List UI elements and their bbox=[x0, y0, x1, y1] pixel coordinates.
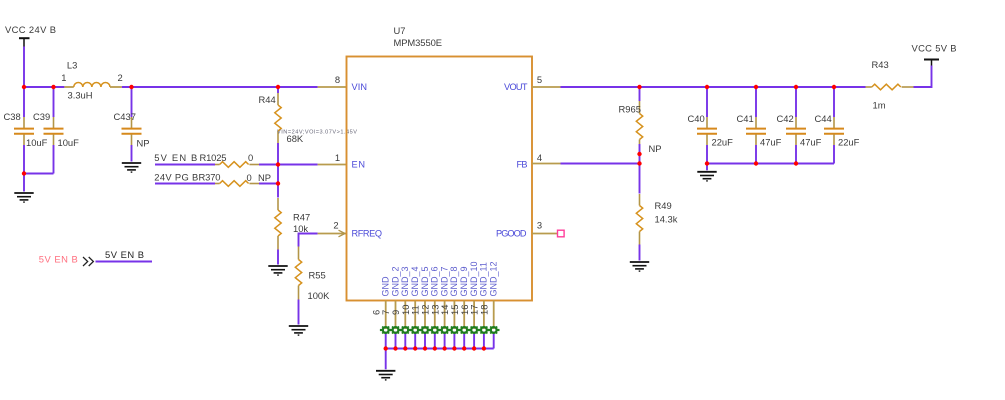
net-tie marker pin 16 bbox=[468, 327, 480, 334]
node rail at C437 bbox=[129, 85, 133, 89]
off-page connector 5V_EN_B bbox=[39, 249, 152, 266]
svg-text:3.3uH: 3.3uH bbox=[68, 90, 93, 101]
svg-text:100K: 100K bbox=[308, 290, 331, 301]
net-tie marker pin 10 bbox=[409, 327, 421, 334]
svg-text:R47: R47 bbox=[293, 212, 310, 223]
svg-text:5V EN B: 5V EN B bbox=[154, 152, 197, 163]
wire to ground bbox=[23, 174, 25, 192]
pin 6 GND stub bbox=[385, 301, 387, 330]
node caprail C42 bbox=[794, 161, 798, 165]
svg-text:MPM3550E: MPM3550E bbox=[394, 37, 443, 48]
pin 15 GND_9 stub bbox=[463, 301, 465, 330]
wire pin 13 to bus bbox=[444, 332, 446, 349]
pin 9 GND_3 stub bbox=[404, 301, 406, 330]
svg-text:R965: R965 bbox=[619, 104, 641, 115]
net-tie marker pin 17 bbox=[478, 327, 490, 334]
svg-text:5V EN B: 5V EN B bbox=[39, 254, 78, 265]
svg-text:10k: 10k bbox=[293, 223, 308, 234]
ground under R47 bbox=[268, 266, 287, 275]
net-tie marker pin 12 bbox=[429, 327, 441, 334]
svg-text:VCC 5V B: VCC 5V B bbox=[912, 43, 957, 54]
GND pins of U7 bbox=[370, 261, 499, 379]
power VCC_24V_B bbox=[5, 24, 56, 47]
node VOUT at C41 bbox=[754, 85, 758, 89]
pin 10 GND_4 stub bbox=[414, 301, 416, 330]
svg-text:GND_10: GND_10 bbox=[469, 261, 479, 296]
wire GND bus bbox=[386, 348, 494, 350]
node rail at R44 bbox=[276, 85, 280, 89]
svg-text:1m: 1m bbox=[873, 100, 886, 111]
net-tie marker pin 7 bbox=[390, 327, 402, 334]
ground under C40 bbox=[697, 172, 716, 181]
pin 13 GND_7 stub bbox=[444, 301, 446, 330]
svg-text:VIN=24V;VOl=3.07V>1.45V: VIN=24V;VOl=3.07V>1.45V bbox=[277, 130, 357, 136]
wire pin 12 to bus bbox=[434, 332, 436, 349]
pin 2 RFREQ stub bbox=[318, 230, 347, 237]
svg-text:GND_5: GND_5 bbox=[420, 266, 430, 296]
svg-text:47uF: 47uF bbox=[760, 137, 782, 148]
resistor R1025 bbox=[155, 152, 259, 167]
svg-text:14.3k: 14.3k bbox=[655, 214, 678, 225]
node caprail C40 bbox=[705, 161, 709, 165]
svg-text:C437: C437 bbox=[114, 111, 136, 122]
resistor R47 bbox=[275, 198, 310, 265]
svg-text:1: 1 bbox=[335, 152, 340, 163]
svg-text:C44: C44 bbox=[815, 113, 832, 124]
node R965 bottom bbox=[637, 152, 641, 156]
capacitor C44 bbox=[815, 87, 860, 164]
node VOUT at C44 bbox=[832, 85, 836, 89]
svg-text:NP: NP bbox=[649, 143, 662, 154]
resistor R44 bbox=[259, 87, 304, 165]
resistor R965 bbox=[619, 87, 662, 164]
svg-text:GND_9: GND_9 bbox=[459, 266, 469, 296]
svg-text:4: 4 bbox=[537, 152, 542, 163]
node C38 bottom bbox=[22, 171, 26, 175]
wire pin 16 to bus bbox=[473, 332, 475, 349]
net-tie marker pin 13 bbox=[439, 327, 451, 334]
svg-text:22uF: 22uF bbox=[838, 137, 860, 148]
svg-text:C42: C42 bbox=[777, 113, 794, 124]
svg-text:5V EN B: 5V EN B bbox=[105, 249, 144, 260]
wire RFREQ vertical bbox=[298, 233, 300, 247]
node bus pin 17 bbox=[482, 346, 486, 350]
wire pin 18 to bus bbox=[493, 332, 495, 349]
net-tie marker pin 15 bbox=[458, 327, 470, 334]
wire C39 bottom to C38 bottom bbox=[24, 173, 54, 175]
ground under R55 bbox=[289, 326, 308, 335]
wire VOUT rail bbox=[561, 86, 866, 88]
svg-text:GND: GND bbox=[381, 276, 391, 297]
capacitor C437 bbox=[114, 87, 150, 162]
wire pin 7 to bus bbox=[395, 332, 397, 349]
ground under GND bus bbox=[376, 371, 395, 380]
node bus pin 15 bbox=[462, 346, 466, 350]
svg-text:C39: C39 bbox=[33, 111, 50, 122]
power VCC_5V_B bbox=[912, 43, 957, 66]
node EN junction bbox=[276, 162, 280, 166]
node bus pin 6 bbox=[384, 346, 388, 350]
svg-text:R44: R44 bbox=[259, 94, 276, 105]
node bus pin 9 bbox=[403, 346, 407, 350]
ground under C38 bbox=[14, 193, 33, 202]
pin 14 GND_8 stub bbox=[453, 301, 455, 330]
svg-text:R55: R55 bbox=[309, 270, 326, 281]
node bus pin 10 bbox=[413, 346, 417, 350]
svg-text:EN: EN bbox=[352, 160, 366, 170]
svg-text:18: 18 bbox=[478, 305, 489, 315]
svg-text:R49: R49 bbox=[655, 200, 672, 211]
wire FB junction down bbox=[639, 164, 641, 194]
wire RFREQ horizontal bbox=[299, 233, 318, 235]
pin 18 GND_12 stub bbox=[493, 301, 495, 330]
ground under R49 bbox=[630, 262, 649, 271]
svg-text:C41: C41 bbox=[737, 113, 754, 124]
capacitor C40 bbox=[688, 87, 734, 164]
svg-text:C40: C40 bbox=[688, 113, 705, 124]
svg-text:24V PG B: 24V PG B bbox=[154, 172, 198, 183]
svg-text:3: 3 bbox=[537, 220, 542, 231]
svg-text:L3: L3 bbox=[67, 60, 77, 71]
resistor R55 bbox=[295, 247, 330, 325]
svg-text:FB: FB bbox=[517, 160, 528, 170]
node FB junction bbox=[637, 161, 641, 165]
svg-text:8: 8 bbox=[335, 74, 340, 85]
node rail at C38 bbox=[22, 85, 26, 89]
pin 8 VIN stub bbox=[318, 86, 347, 88]
wire pin 10 to bus bbox=[414, 332, 416, 349]
svg-text:U7: U7 bbox=[394, 25, 406, 36]
pin 3 PGOOD stub bbox=[532, 233, 558, 235]
wire 24V rail to VIN bbox=[122, 86, 318, 88]
wire R43 to VCC_5V_B bbox=[914, 66, 932, 88]
svg-text:GND_8: GND_8 bbox=[449, 266, 459, 296]
wire 24V rail left bbox=[24, 86, 64, 88]
svg-text:VCC 24V B: VCC 24V B bbox=[5, 24, 56, 35]
svg-text:R370: R370 bbox=[199, 172, 221, 183]
net-tie marker pin 9 bbox=[400, 327, 412, 334]
junction dots bbox=[22, 85, 836, 186]
svg-text:0: 0 bbox=[248, 152, 253, 163]
capacitor C39 bbox=[33, 87, 79, 174]
resistor R43 bbox=[866, 59, 914, 111]
svg-text:2: 2 bbox=[333, 220, 338, 231]
pin 5 VOUT stub bbox=[532, 86, 561, 88]
node bus pin 14 bbox=[452, 346, 456, 350]
pin 17 GND_11 stub bbox=[483, 301, 485, 330]
capacitor C41 bbox=[737, 87, 782, 164]
wire R370 to junction bbox=[259, 183, 278, 185]
svg-text:GND_12: GND_12 bbox=[489, 261, 499, 296]
node bus pin 7 bbox=[393, 346, 397, 350]
no-connect square PGOOD bbox=[558, 230, 565, 237]
wire EN junction down bbox=[277, 165, 279, 198]
node VOUT at R965 bbox=[637, 85, 641, 89]
svg-text:47uF: 47uF bbox=[800, 137, 822, 148]
inductor L3 bbox=[61, 60, 123, 101]
pin 7 GND_2 stub bbox=[395, 301, 397, 330]
svg-text:10uF: 10uF bbox=[58, 137, 80, 148]
svg-text:VIN: VIN bbox=[352, 82, 368, 92]
svg-text:PGOOD: PGOOD bbox=[496, 229, 527, 239]
net-tie marker pin 11 bbox=[419, 327, 431, 334]
svg-text:C38: C38 bbox=[4, 111, 21, 122]
pin 12 GND_6 stub bbox=[434, 301, 436, 330]
node R370 junction bbox=[276, 181, 280, 185]
node VOUT at C42 bbox=[794, 85, 798, 89]
svg-text:GND_6: GND_6 bbox=[430, 266, 440, 296]
ground under C437 bbox=[122, 163, 141, 172]
net-tie marker pin 18 bbox=[488, 327, 500, 334]
svg-text:GND_3: GND_3 bbox=[400, 266, 410, 296]
net-tie marker pin 6 bbox=[380, 327, 392, 334]
svg-text:GND_11: GND_11 bbox=[479, 262, 489, 296]
pin 1 EN stub bbox=[318, 164, 347, 166]
resistor R370 bbox=[155, 172, 271, 187]
pin 4 FB stub bbox=[532, 163, 561, 165]
svg-text:GND_7: GND_7 bbox=[439, 266, 449, 296]
svg-text:10uF: 10uF bbox=[26, 137, 48, 148]
node rail at C39 bbox=[51, 85, 55, 89]
svg-text:RFREQ: RFREQ bbox=[352, 229, 383, 239]
svg-text:NP: NP bbox=[137, 138, 150, 149]
wire R1025 to EN pin bbox=[259, 164, 318, 166]
svg-text:22uF: 22uF bbox=[712, 137, 734, 148]
wire pin 11 to bus bbox=[424, 332, 426, 349]
wire FB bbox=[561, 163, 640, 165]
wire cap bottom rail bbox=[707, 163, 834, 165]
wire pin 9 to bus bbox=[404, 332, 406, 349]
net-tie marker pin 14 bbox=[449, 327, 461, 334]
node bus pin 16 bbox=[472, 346, 476, 350]
node VOUT at C40 bbox=[705, 85, 709, 89]
wire pin 14 to bus bbox=[453, 332, 455, 349]
svg-text:NP: NP bbox=[258, 172, 271, 183]
svg-text:5: 5 bbox=[537, 74, 542, 85]
svg-text:VOUT: VOUT bbox=[504, 82, 528, 92]
resistor R49 bbox=[636, 194, 677, 261]
wire VCC to rail bbox=[23, 47, 25, 88]
capacitor C42 bbox=[777, 87, 822, 164]
node bus pin 11 bbox=[423, 346, 427, 350]
capacitor C38 bbox=[4, 87, 48, 174]
svg-text:R43: R43 bbox=[872, 59, 889, 70]
wire pin 17 to bus bbox=[483, 332, 485, 349]
wire pin 15 to bus bbox=[463, 332, 465, 349]
node bus pin 12 bbox=[433, 346, 437, 350]
node bus pin 13 bbox=[442, 346, 446, 350]
wire bus to ground bbox=[385, 349, 387, 370]
svg-text:GND_4: GND_4 bbox=[410, 266, 420, 296]
svg-text:GND_2: GND_2 bbox=[390, 266, 400, 296]
svg-text:1: 1 bbox=[61, 72, 66, 83]
U7 body bbox=[347, 57, 533, 301]
wire C40 to ground bbox=[706, 164, 708, 171]
pin 16 GND_10 stub bbox=[473, 301, 475, 330]
node caprail C41 bbox=[754, 161, 758, 165]
pin 11 GND_5 stub bbox=[424, 301, 426, 330]
wire pin 6 to bus bbox=[385, 332, 387, 349]
svg-text:2: 2 bbox=[118, 72, 123, 83]
op-amp U7 title bbox=[394, 25, 443, 48]
